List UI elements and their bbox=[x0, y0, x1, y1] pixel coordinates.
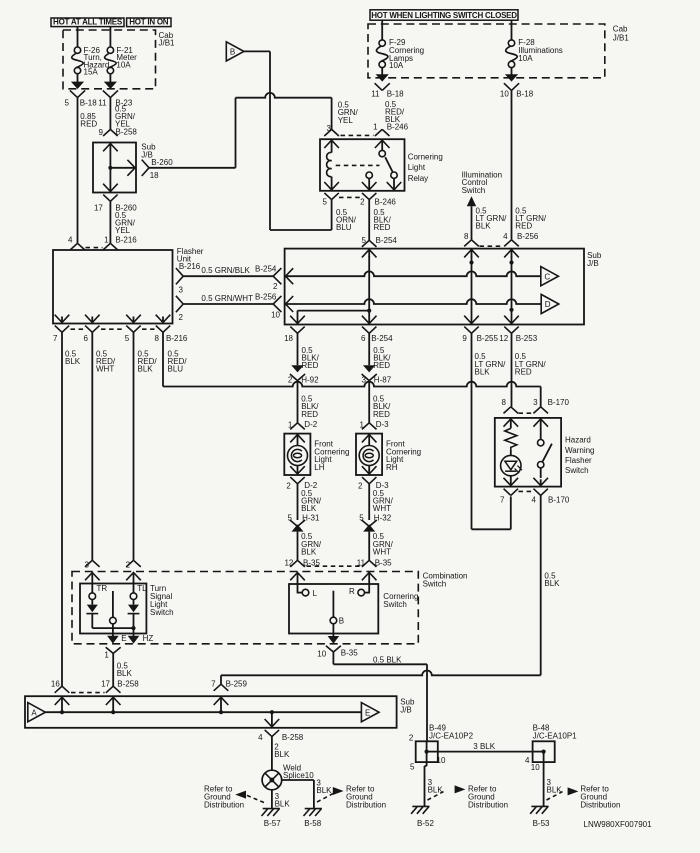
svg-text:B-58: B-58 bbox=[304, 819, 321, 828]
svg-text:11: 11 bbox=[357, 559, 366, 568]
svg-text:4: 4 bbox=[525, 756, 530, 765]
svg-text:BLK: BLK bbox=[385, 115, 401, 124]
svg-text:A: A bbox=[31, 708, 37, 717]
internal line to triangle C (hops) bbox=[286, 271, 541, 276]
svg-text:B-35: B-35 bbox=[341, 648, 358, 657]
junction block Sub J/B (bottom) box bbox=[25, 696, 397, 728]
combination switch dashed box bbox=[72, 572, 418, 644]
svg-text:10A: 10A bbox=[389, 61, 404, 70]
svg-text:BLK: BLK bbox=[65, 357, 81, 366]
svg-text:RED: RED bbox=[80, 119, 97, 128]
wire triangle B to relay pin 5 bbox=[244, 50, 270, 52]
svg-text:B-258: B-258 bbox=[116, 128, 138, 137]
svg-text:B-216: B-216 bbox=[166, 334, 188, 343]
svg-text:4: 4 bbox=[532, 496, 537, 505]
connector 11 B-35 bbox=[362, 560, 377, 567]
wire pin18 to H-92 bbox=[297, 333, 299, 365]
wire 3 BLK between B-49 and B-48 bbox=[438, 751, 533, 753]
connector B-256 pin 10 bbox=[273, 296, 281, 312]
connector hazard pin 7 bbox=[504, 489, 518, 496]
header box HOT IN ON bbox=[127, 18, 171, 27]
hazard switch upper terminal bbox=[538, 440, 544, 446]
svg-text:B-52: B-52 bbox=[417, 819, 434, 828]
relay unused contact arrow bbox=[387, 182, 402, 190]
svg-text:B-259: B-259 bbox=[226, 679, 248, 688]
connector 2 D-3 bbox=[362, 477, 376, 484]
svg-text:BLK: BLK bbox=[275, 800, 291, 809]
svg-text:B-57: B-57 bbox=[264, 819, 281, 828]
svg-text:0.5 GRN/BLK: 0.5 GRN/BLK bbox=[201, 266, 250, 275]
svg-text:B-260: B-260 bbox=[151, 158, 173, 167]
svg-text:YEL: YEL bbox=[338, 116, 354, 125]
svg-text:5: 5 bbox=[410, 762, 415, 771]
svg-text:BLK: BLK bbox=[301, 547, 317, 556]
svg-text:3: 3 bbox=[84, 561, 89, 570]
refer to ground right of B-53 bbox=[547, 792, 563, 800]
svg-text:B-255: B-255 bbox=[477, 334, 499, 343]
svg-text:2: 2 bbox=[288, 375, 293, 384]
LH lamp pin out arrow bbox=[290, 466, 305, 474]
TS bottom bus bbox=[92, 627, 133, 629]
refer to ground right of B-52 bbox=[428, 792, 444, 800]
wire 0.5 BLK pin1 down bbox=[112, 653, 114, 686]
svg-text:BLU: BLU bbox=[336, 223, 352, 232]
connector pin 12 B-253 bbox=[504, 327, 518, 334]
flasher unit box bbox=[53, 250, 173, 324]
wire D-2 to H-31 bbox=[297, 484, 299, 520]
svg-text:Switch: Switch bbox=[423, 579, 447, 588]
svg-text:B-53: B-53 bbox=[533, 819, 550, 828]
internal column pin4 to pin12 bbox=[511, 256, 513, 324]
turn signal light switch box bbox=[80, 584, 146, 634]
B-48 internal wires bbox=[533, 751, 544, 753]
svg-text:Distribution: Distribution bbox=[468, 801, 508, 810]
hazard LED lamp bbox=[510, 449, 512, 455]
svg-text:B-254: B-254 bbox=[255, 265, 277, 274]
svg-text:10: 10 bbox=[317, 649, 326, 658]
connector pin 6 B-254 bbox=[362, 327, 376, 334]
connector flasher pin 4 bbox=[70, 243, 85, 250]
svg-text:D-2: D-2 bbox=[304, 420, 317, 429]
svg-text:2: 2 bbox=[360, 198, 365, 207]
connector 17 B-260 bbox=[103, 195, 117, 202]
wire relay pin2 to 5 B-254 bbox=[368, 200, 370, 241]
svg-text:1: 1 bbox=[104, 236, 109, 245]
svg-text:D: D bbox=[545, 300, 551, 309]
connector relay pin 3 bbox=[324, 129, 339, 136]
svg-text:17: 17 bbox=[94, 204, 103, 213]
svg-text:B-254: B-254 bbox=[371, 334, 393, 343]
hazard resistor bbox=[505, 428, 517, 449]
Sub J/B bottom bus bbox=[45, 711, 361, 713]
junction block Sub J/B (middle) box bbox=[285, 249, 584, 325]
svg-text:9: 9 bbox=[462, 334, 467, 343]
RH lamp bulb bbox=[359, 446, 379, 466]
svg-text:B-256: B-256 bbox=[255, 292, 277, 301]
svg-text:D-3: D-3 bbox=[376, 420, 389, 429]
wire 0.85 RED (F-26 to flasher pin 4) bbox=[77, 98, 79, 244]
Sub J/B upper internal branch to pin 18 bbox=[110, 167, 135, 169]
relay contact terminal right bbox=[391, 172, 397, 178]
svg-text:6: 6 bbox=[361, 334, 366, 343]
Sub J/B pin 2 arrow bbox=[286, 268, 294, 284]
wire riser to pin 7 B-259 bbox=[220, 675, 222, 684]
wire splice to B-58 ground bbox=[282, 779, 314, 781]
svg-text:3: 3 bbox=[179, 285, 184, 294]
svg-text:10: 10 bbox=[271, 310, 280, 319]
connector 2 H-92 bbox=[291, 365, 303, 372]
pin 17 arrow bbox=[106, 697, 121, 705]
svg-text:J/B: J/B bbox=[587, 259, 599, 268]
svg-text:HOT AT ALL TIMES: HOT AT ALL TIMES bbox=[53, 18, 123, 27]
svg-text:10A: 10A bbox=[518, 54, 533, 63]
svg-text:BLK: BLK bbox=[274, 750, 290, 759]
svg-text:16: 16 bbox=[51, 679, 60, 688]
RH lamp pin in arrow bbox=[362, 435, 377, 443]
svg-text:Splice10: Splice10 bbox=[283, 771, 314, 780]
svg-text:B-216: B-216 bbox=[115, 236, 137, 245]
svg-text:B-246: B-246 bbox=[375, 198, 397, 207]
connector 11 B-18 bbox=[375, 83, 390, 90]
Sub J/B pin 8 arrow bbox=[464, 250, 479, 258]
wire 0.5 GRN/YEL lower bbox=[109, 201, 111, 243]
svg-text:3: 3 bbox=[533, 398, 538, 407]
cornering exit B arrow bbox=[328, 636, 340, 644]
TS terminal TR bbox=[91, 584, 93, 593]
svg-text:10: 10 bbox=[437, 756, 446, 765]
svg-text:18: 18 bbox=[150, 171, 159, 180]
Sub J/B upper internal riser bbox=[103, 144, 118, 152]
pin 4 exit arrow bbox=[270, 710, 274, 714]
wire H-92 to D-2 bbox=[297, 381, 299, 423]
svg-text:Switch: Switch bbox=[150, 608, 174, 617]
svg-text:B-170: B-170 bbox=[548, 496, 570, 505]
connector 7 B-259 bbox=[214, 684, 229, 691]
wire 0.5 GRN/YEL (F-21 to 9 B-258) bbox=[109, 98, 111, 130]
svg-text:10A: 10A bbox=[116, 60, 131, 69]
svg-text:B-256: B-256 bbox=[517, 232, 539, 241]
wire 0.5 RED/BLU horizontal (hops 4) bbox=[163, 382, 541, 387]
connector TS pin 3 bbox=[85, 560, 100, 567]
reference triangle D bbox=[541, 294, 559, 313]
svg-text:TR: TR bbox=[97, 584, 108, 593]
cornering common leg B bbox=[332, 591, 334, 618]
connector 12 B-35 bbox=[290, 560, 305, 567]
dashed link hazard pins 8-3 bbox=[519, 412, 534, 414]
svg-text:B-216: B-216 bbox=[179, 262, 201, 271]
svg-text:8: 8 bbox=[464, 232, 469, 241]
svg-text:RED: RED bbox=[301, 410, 318, 419]
svg-text:B-258: B-258 bbox=[117, 679, 139, 688]
wire 0.5 RED/WHT flasher pin6 down bbox=[91, 332, 93, 560]
svg-text:J/B: J/B bbox=[400, 706, 412, 715]
internal jog to pin 18 bbox=[298, 310, 370, 312]
internal column pin5 to pin6 bbox=[368, 256, 370, 324]
wire H-87 to D-3 bbox=[368, 381, 370, 423]
svg-text:2: 2 bbox=[126, 561, 131, 570]
svg-text:Switch: Switch bbox=[462, 186, 486, 195]
connector 5 B-18 bbox=[70, 90, 85, 97]
connector hazard pin 3 B-170 bbox=[533, 407, 548, 414]
dashed link hazard pins 7-4 bbox=[519, 490, 534, 492]
connector pin 9 B-255 bbox=[464, 327, 478, 334]
svg-text:J/C-EA10P1: J/C-EA10P1 bbox=[533, 731, 578, 740]
svg-text:Cab: Cab bbox=[613, 25, 628, 34]
dashed links flasher bottom pins bbox=[71, 328, 85, 330]
svg-text:18: 18 bbox=[284, 334, 293, 343]
fuse F-28 Illuminations 10A bbox=[511, 20, 513, 40]
cornering pin L arrow bbox=[290, 573, 305, 581]
connector relay pin 5 bbox=[324, 193, 338, 200]
wire pin4 to weld splice bbox=[271, 737, 273, 771]
svg-text:12: 12 bbox=[284, 559, 293, 568]
svg-text:4: 4 bbox=[258, 733, 263, 742]
flasher bottom pin 6 bbox=[85, 315, 100, 323]
ground B-58 bbox=[304, 809, 322, 816]
wire 0.5 RED/BLK flasher pin5 down bbox=[133, 332, 135, 560]
hazard pin 8 arrow bbox=[504, 419, 519, 427]
svg-text:BLK: BLK bbox=[301, 504, 317, 513]
svg-text:5: 5 bbox=[359, 514, 364, 523]
svg-text:LNW980XF007901: LNW980XF007901 bbox=[584, 820, 653, 829]
svg-text:RED: RED bbox=[374, 223, 391, 232]
svg-text:YEL: YEL bbox=[115, 226, 131, 235]
svg-text:B-253: B-253 bbox=[516, 334, 538, 343]
ground B-57 bbox=[262, 809, 280, 816]
fuse box Cab J/B1 (right) dashed outline bbox=[368, 24, 605, 78]
svg-text:H-31: H-31 bbox=[302, 514, 320, 523]
svg-text:WHT: WHT bbox=[373, 504, 391, 513]
relay contact terminal left bbox=[366, 172, 372, 178]
hazard pin 3 arrow bbox=[533, 419, 548, 427]
svg-text:RED: RED bbox=[373, 410, 390, 419]
wire B-49 to B-52 ground bbox=[426, 762, 428, 766]
svg-text:B: B bbox=[339, 617, 344, 626]
svg-text:B-18: B-18 bbox=[80, 99, 97, 108]
wire 0.5 LT GRN/BLK pin9 down bbox=[471, 333, 473, 529]
RH lamp pin out arrow bbox=[362, 466, 377, 474]
illumination control switch arrow bbox=[467, 196, 476, 206]
wire hazard pin4 horizontal (hop at B-49 riser) bbox=[221, 671, 541, 676]
svg-text:RED: RED bbox=[515, 367, 532, 376]
hazard LED to pin 7 arrow bbox=[504, 478, 519, 486]
svg-text:1: 1 bbox=[288, 421, 293, 430]
svg-text:Hazard: Hazard bbox=[565, 436, 591, 445]
TS diode right bbox=[133, 600, 135, 605]
connector 9 B-258 bbox=[103, 129, 118, 136]
svg-text:BLK: BLK bbox=[138, 365, 154, 374]
svg-text:2: 2 bbox=[273, 282, 278, 291]
svg-text:BLU: BLU bbox=[168, 365, 184, 374]
relay coil bbox=[327, 153, 332, 177]
TS middle leg E bbox=[112, 591, 114, 617]
svg-text:2: 2 bbox=[409, 734, 414, 743]
hazard pin 4 arrow bbox=[533, 478, 548, 486]
dashed link relay pins 5-2 bbox=[339, 196, 362, 198]
svg-text:WHT: WHT bbox=[373, 547, 391, 556]
wire 0.5 RED/BLU flasher pin8 down bbox=[162, 332, 164, 386]
svg-text:1: 1 bbox=[104, 650, 109, 659]
fuse F-26 Turn Hazard 15A bbox=[77, 27, 79, 47]
svg-text:3: 3 bbox=[327, 124, 332, 133]
wire pin6 to H-87 bbox=[368, 333, 370, 365]
connector Sub J/B pin 8 bbox=[464, 240, 479, 247]
svg-text:Warning: Warning bbox=[565, 446, 595, 455]
svg-text:Relay: Relay bbox=[408, 174, 428, 183]
svg-text:RED: RED bbox=[373, 361, 390, 370]
svg-text:LH: LH bbox=[314, 463, 324, 472]
svg-text:Switch: Switch bbox=[565, 466, 589, 475]
svg-text:HOT IN ON: HOT IN ON bbox=[129, 18, 169, 27]
Sub J/B pin 4 arrow bbox=[504, 250, 519, 258]
cornering switch box bbox=[289, 584, 378, 634]
svg-text:17: 17 bbox=[101, 679, 110, 688]
LH lamp pin in arrow bbox=[290, 435, 305, 443]
front cornering light LH box bbox=[284, 434, 310, 475]
svg-text:J/B1: J/B1 bbox=[159, 39, 176, 48]
LH lamp bulb bbox=[288, 446, 308, 466]
refer to ground right of B-58 bbox=[317, 794, 333, 802]
svg-text:5: 5 bbox=[288, 514, 293, 523]
reference triangle A bbox=[28, 703, 46, 722]
svg-text:BLK: BLK bbox=[544, 579, 560, 588]
svg-text:BLK: BLK bbox=[117, 669, 133, 678]
dashed link pins 8-4 bbox=[480, 245, 504, 247]
dashed link flasher pins 4-1 bbox=[86, 247, 103, 249]
svg-text:7: 7 bbox=[211, 679, 216, 688]
relay box Cornering Light Relay bbox=[320, 139, 405, 191]
connector 4 B-258 bbox=[265, 730, 279, 737]
ground B-52 bbox=[411, 806, 429, 813]
svg-text:B-170: B-170 bbox=[548, 398, 570, 407]
svg-text:B-35: B-35 bbox=[375, 559, 392, 568]
svg-text:1: 1 bbox=[360, 421, 365, 430]
svg-text:BLK: BLK bbox=[475, 367, 491, 376]
connector B-260 pin 18 bbox=[142, 160, 149, 176]
svg-text:WHT: WHT bbox=[96, 365, 114, 374]
svg-text:5: 5 bbox=[125, 334, 130, 343]
relay pin 1 arrow bbox=[375, 140, 390, 148]
svg-text:B-18: B-18 bbox=[516, 89, 533, 98]
svg-text:C: C bbox=[544, 272, 550, 281]
fuse F-29 Cornering Lamps 10A bbox=[381, 20, 383, 40]
svg-text:5: 5 bbox=[362, 236, 367, 245]
flasher bottom pin 8 B-216 bbox=[156, 315, 171, 323]
dashed link relay pins 3-1 bbox=[341, 134, 374, 136]
cornering terminal L bbox=[302, 589, 309, 596]
internal line to triangle D (hops) bbox=[286, 299, 542, 304]
svg-text:7: 7 bbox=[500, 496, 505, 505]
header box HOT AT ALL TIMES bbox=[51, 18, 124, 27]
svg-text:H-32: H-32 bbox=[374, 514, 392, 523]
svg-text:Flasher: Flasher bbox=[565, 456, 592, 465]
connector B-254 pin 2 bbox=[273, 268, 281, 284]
connector relay pin 1 B-246 bbox=[375, 129, 390, 136]
wire H-32 to B-35 pin11 bbox=[368, 532, 370, 561]
relay switch common terminal bbox=[379, 150, 385, 156]
junction connector B-49 J/C-EA10P2 bbox=[416, 741, 438, 762]
svg-text:11: 11 bbox=[98, 99, 107, 108]
wire B-260 pin18 riser bbox=[149, 167, 236, 169]
svg-text:8: 8 bbox=[502, 398, 507, 407]
svg-text:J/C-EA10P2: J/C-EA10P2 bbox=[429, 731, 474, 740]
wire B-48 to B-53 ground bbox=[543, 762, 545, 806]
connector 2 D-2 bbox=[290, 477, 304, 484]
svg-text:4: 4 bbox=[503, 232, 508, 241]
flasher bottom pin 5 bbox=[126, 315, 141, 323]
wire 0.5 BLK hazard pin4 bbox=[540, 495, 542, 675]
relay pin 5 arrow bbox=[324, 182, 339, 190]
svg-text:BLK: BLK bbox=[476, 221, 492, 230]
svg-text:0.5 BLK: 0.5 BLK bbox=[373, 655, 402, 664]
svg-text:0.5 GRN/WHT: 0.5 GRN/WHT bbox=[201, 294, 253, 303]
reference triangle E bbox=[361, 703, 379, 722]
cornering pin R arrow bbox=[362, 573, 377, 581]
connector 1 D-3 bbox=[362, 423, 377, 430]
connector hazard pin 8 bbox=[504, 407, 519, 414]
wire splice to B-57 ground bbox=[271, 790, 273, 809]
svg-text:R: R bbox=[349, 587, 355, 596]
TS terminal TL bbox=[133, 584, 135, 593]
TS exit E arrow bbox=[107, 636, 119, 644]
dashed link pins 16-17 bbox=[71, 692, 105, 694]
pin 7 arrow bbox=[214, 697, 229, 705]
svg-text:H-87: H-87 bbox=[374, 375, 392, 384]
svg-text:B-254: B-254 bbox=[376, 236, 398, 245]
svg-text:1: 1 bbox=[373, 122, 378, 131]
svg-text:3 BLK: 3 BLK bbox=[473, 742, 495, 751]
Sub J/B pin 5 arrow bbox=[362, 250, 377, 258]
connector TS pin 1 bbox=[106, 647, 121, 653]
svg-text:15A: 15A bbox=[84, 68, 99, 77]
svg-text:Switch: Switch bbox=[383, 600, 407, 609]
svg-text:2: 2 bbox=[286, 482, 291, 491]
wire H-31 to B-35 pin12 bbox=[297, 532, 299, 561]
svg-text:2: 2 bbox=[179, 313, 184, 322]
svg-text:Cornering: Cornering bbox=[408, 153, 443, 162]
connector 5 B-254 bbox=[362, 240, 377, 247]
B-49 internal wires bbox=[426, 741, 428, 751]
svg-text:B-258: B-258 bbox=[282, 733, 304, 742]
svg-text:Distribution: Distribution bbox=[580, 801, 620, 810]
connector 3 H-87 bbox=[363, 365, 375, 372]
fuse F-21 Meter 10A bbox=[109, 27, 111, 47]
svg-text:8: 8 bbox=[155, 334, 160, 343]
wire to relay pin 3 (hop over triangle-B wire) bbox=[236, 93, 332, 98]
reference triangle C bbox=[541, 267, 559, 286]
relay pin 2 arrow bbox=[362, 182, 377, 190]
svg-text:B: B bbox=[230, 48, 235, 57]
flasher bottom pin 7 bbox=[55, 315, 70, 323]
svg-text:E: E bbox=[365, 708, 370, 717]
svg-text:J/B1: J/B1 bbox=[613, 33, 630, 42]
svg-text:RED: RED bbox=[302, 361, 319, 370]
ground B-53 bbox=[530, 806, 548, 813]
svg-text:TL: TL bbox=[137, 584, 147, 593]
connector flasher pin 1 B-216 bbox=[103, 243, 118, 250]
svg-text:H-92: H-92 bbox=[301, 375, 319, 384]
hazard switch lower terminal bbox=[538, 462, 544, 468]
svg-text:RED: RED bbox=[515, 221, 532, 230]
svg-text:2: 2 bbox=[358, 482, 363, 491]
svg-text:5: 5 bbox=[323, 198, 328, 207]
svg-text:10: 10 bbox=[500, 89, 509, 98]
reference triangle B bbox=[226, 42, 244, 61]
connector 17 B-258 bbox=[106, 686, 121, 693]
connector 1 D-2 bbox=[290, 423, 305, 430]
junction connector B-48 J/C-EA10P1 bbox=[533, 741, 555, 762]
connector 10 B-18 bbox=[504, 83, 519, 90]
